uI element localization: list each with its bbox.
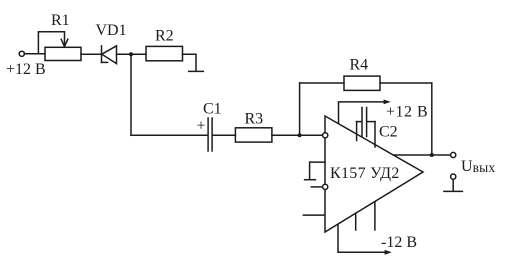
svg-text:R4: R4 [350, 57, 369, 74]
wire [272, 134, 323, 136]
terminal Uвых (bottom) [451, 174, 456, 179]
arrow (+12V) [384, 100, 391, 105]
pin stub (bottom 2) [374, 202, 376, 230]
ground (non-inverting input) [310, 162, 325, 179]
wire [131, 134, 207, 136]
R1 wiper bracket and arrow [38, 32, 64, 54]
svg-text:R3: R3 [245, 110, 264, 127]
svg-text:К157 УД2: К157 УД2 [330, 165, 400, 182]
svg-text:C1: C1 [203, 101, 222, 118]
svg-text:-12 В: -12 В [381, 234, 417, 251]
terminal Uвых (top) [451, 152, 456, 157]
resistor R2 [146, 46, 183, 60]
wire [24, 53, 45, 55]
resistor R1 (variable) [45, 47, 81, 60]
svg-text:+12 В: +12 В [6, 61, 46, 78]
node (non-inverting input pin circle) [323, 184, 328, 189]
pin stub (bottom 1) [355, 213, 357, 230]
wire (output) [394, 154, 451, 156]
wire (feedback right vertical) [431, 83, 433, 155]
node (inverting input pin circle) [323, 133, 328, 138]
wire (feedback left vertical) [299, 83, 301, 135]
wire [452, 179, 454, 191]
wire (+12V supply pin) [339, 102, 385, 124]
wire (non-inverting input stub) [311, 186, 322, 188]
wire (C2 left pin into op-amp) [356, 122, 358, 141]
wire [117, 53, 147, 55]
wire [81, 53, 102, 55]
arrow (-12V) [385, 250, 392, 255]
zener diode VD1 [101, 46, 103, 63]
svg-text:+12 В: +12 В [386, 104, 428, 121]
wire [380, 82, 432, 84]
op-amp DA1 К157 УД2 [325, 116, 423, 232]
svg-text:C2: C2 [379, 124, 398, 141]
wire (-12V supply pin) [338, 224, 385, 252]
svg-text:Uвых: Uвых [461, 158, 495, 175]
terminal input +12V [19, 51, 24, 56]
wire [300, 82, 344, 84]
ground (after R2) [189, 70, 204, 72]
wire [213, 134, 236, 136]
capacitor C1 [207, 118, 209, 151]
node (inverting input junction) [298, 133, 302, 137]
node (junction after VD1) [129, 52, 133, 56]
resistor R3 [235, 128, 272, 142]
capacitor C2 [361, 108, 363, 137]
wire (vertical from VD1 node down to C1 row) [130, 54, 132, 135]
wire (C2 right pin into op-amp) [374, 122, 376, 147]
svg-text:R1: R1 [51, 12, 70, 29]
ground (output) [444, 190, 463, 192]
resistor R4 [344, 76, 380, 90]
svg-text:R2: R2 [155, 27, 174, 44]
node (output junction) [430, 153, 434, 157]
svg-text:+: + [197, 118, 206, 135]
svg-text:VD1: VD1 [96, 22, 127, 39]
pin stub (left lower) [303, 214, 324, 216]
wire [183, 54, 197, 71]
